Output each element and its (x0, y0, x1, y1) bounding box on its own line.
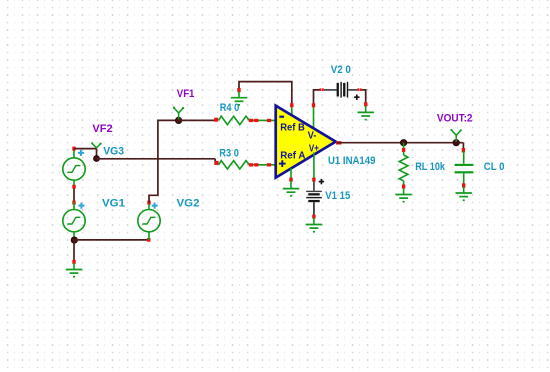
wire VG3 to VF2 corner horizontal (74, 148, 97, 150)
wire ground stub green (238, 92, 240, 98)
ground Ref B (231, 98, 247, 105)
ground Ref A (283, 189, 299, 196)
wire V- up to V2 battery (314, 90, 321, 105)
label VG2 (177, 198, 200, 210)
pin op-amp inverting input (267, 119, 271, 122)
wire Ref B loop to ground (239, 82, 292, 105)
pin Ref B top (290, 103, 293, 107)
wire ground stub green (73, 263, 75, 269)
wire VG1 bottom lead (73, 232, 75, 240)
ground RL (395, 195, 411, 202)
svg-text:VG2: VG2 (177, 198, 200, 210)
pin ground Ref B (237, 88, 240, 92)
wire RL bottom stub green (403, 181, 405, 194)
wire ground stub green (313, 218, 315, 224)
label op-amp plus input (279, 160, 286, 167)
label RL 10k (415, 161, 446, 173)
label R3 0 (219, 148, 239, 160)
wire VG3 to VG1 vertical (73, 187, 75, 202)
pin VG2 plus terminal (147, 201, 150, 205)
wire VF2 corner down to node (96, 149, 98, 159)
node VF2/VG3 junction dot (94, 156, 100, 162)
label U1 INA149 (328, 155, 375, 167)
pin CL bottom (462, 183, 465, 187)
svg-text:V-: V- (308, 131, 317, 142)
wire V+ supply stub green (313, 153, 315, 179)
wire output to CL corner (337, 142, 463, 144)
wire V2 right to ground (362, 90, 366, 103)
pin wire end R3 to U1 (254, 163, 258, 166)
pin R3 left (215, 161, 219, 165)
plus mark VG3 polarity (78, 150, 84, 156)
plus mark VG2 polarity (152, 203, 158, 209)
pin V+ supply (312, 178, 315, 182)
pin VG2 minus terminal (147, 238, 151, 242)
wire corner down to CL (462, 143, 464, 149)
wire R4 to op-amp input green (249, 119, 276, 121)
wire Ref B pin stub green (291, 105, 293, 117)
ground V2 (358, 112, 374, 119)
svg-text:RL 10k: RL 10k (415, 161, 446, 173)
wire V- supply stub green (313, 105, 315, 131)
wire CL ground stub green (463, 187, 465, 193)
battery V2 (324, 82, 357, 98)
pin VG1 plus terminal (72, 201, 75, 205)
pin CL top (462, 148, 465, 152)
ground below VG1 (66, 270, 82, 277)
label V2 0 (331, 64, 351, 76)
pin RL bottom (402, 185, 405, 189)
pin op-amp noninverting input (267, 163, 271, 166)
wire VG3 bottom lead green (73, 180, 75, 186)
svg-text:R3 0: R3 0 (219, 148, 239, 160)
pin R4 left (214, 118, 218, 122)
svg-text:U1 INA149: U1 INA149 (328, 155, 375, 167)
voltage pin VOUT probe (450, 129, 462, 142)
plus mark VG1 polarity (78, 203, 84, 209)
svg-text:Ref B: Ref B (280, 123, 305, 134)
pin V- supply (312, 103, 315, 107)
pin VG3 minus terminal (72, 185, 75, 189)
resistor R4 (219, 116, 250, 124)
label op-amp minus input (279, 116, 284, 118)
svg-text:Ref A: Ref A (280, 151, 305, 162)
wire VF1 node to R4 (179, 119, 216, 121)
ground V1 (306, 225, 322, 232)
svg-text:VF1: VF1 (177, 88, 195, 100)
node VG1 bottom junction dot (71, 237, 77, 243)
generator VG1 (63, 210, 85, 232)
pin ground V2 (364, 102, 367, 106)
wire RL stub (403, 143, 405, 155)
label VF1 (177, 88, 195, 100)
wire VG2 bottom lead green (148, 232, 150, 240)
pin ground VG1 (72, 260, 75, 264)
wire R3 to op-amp input green (249, 164, 276, 166)
wire Ref A pin stub green (290, 168, 292, 178)
pin battery V2 right (357, 88, 362, 91)
svg-text:VOUT:2: VOUT:2 (437, 113, 473, 125)
battery V1 (306, 181, 322, 215)
pin battery V1 bottom (312, 215, 315, 219)
label VOUT:2 (437, 113, 473, 125)
voltage pin VF1 probe (173, 107, 185, 120)
label VG1 (102, 198, 125, 210)
label Ref B (280, 123, 305, 134)
node RL junction dot (400, 140, 406, 146)
pin wire end R4 to U1 (254, 119, 258, 122)
label V+ (309, 144, 319, 155)
plus mark battery V1 (319, 179, 324, 184)
pin Ref A (289, 178, 292, 182)
resistor R3 (219, 161, 250, 169)
pin battery V2 left (319, 88, 324, 91)
plus mark battery V2 (354, 95, 359, 100)
op-amp U1 triangle (276, 106, 336, 178)
svg-text:V2 0: V2 0 (331, 64, 351, 76)
pin R4 right (249, 119, 253, 122)
svg-text:V1 15: V1 15 (325, 190, 350, 202)
svg-text:CL 0: CL 0 (484, 161, 505, 173)
generator VG3 (63, 158, 85, 180)
label Ref A (280, 151, 305, 162)
wire ground stub green (290, 181, 292, 188)
svg-text:VG1: VG1 (102, 198, 125, 210)
pin RL top (402, 148, 405, 152)
pin op-amp output (336, 141, 341, 144)
wire VG1 top lead green (73, 202, 75, 210)
label VF2 (92, 123, 112, 135)
pin R3 right (249, 163, 253, 166)
voltage pin VF2 probe (91, 142, 102, 148)
wire VG2 top to jog (149, 120, 179, 202)
generator VG2 (138, 210, 160, 232)
wire VG2 top lead green (148, 203, 150, 210)
label VG3 (103, 146, 124, 158)
label V1 15 (325, 190, 350, 202)
wire VG3 top lead vertical green (73, 149, 75, 158)
label CL 0 (484, 161, 505, 173)
capacitor CL (455, 151, 474, 184)
node VOUT junction dot (453, 140, 459, 146)
wire VG1 to VG2 bottom horizontal (74, 239, 149, 241)
wire step down to R3 (214, 159, 216, 165)
pin VG3 plus terminal (72, 147, 75, 151)
svg-text:R4 0: R4 0 (220, 102, 240, 114)
resistor RL (399, 155, 408, 181)
svg-text:VF2: VF2 (92, 123, 112, 135)
node VF1 junction dot (175, 117, 181, 123)
wire junction down to ground (73, 240, 75, 260)
wire ground stub green (365, 106, 367, 112)
label V- (308, 131, 317, 142)
label R4 0 (220, 102, 240, 114)
svg-text:VG3: VG3 (103, 146, 124, 158)
ground CL (456, 193, 472, 200)
wire node to R3 horizontal (97, 158, 216, 160)
